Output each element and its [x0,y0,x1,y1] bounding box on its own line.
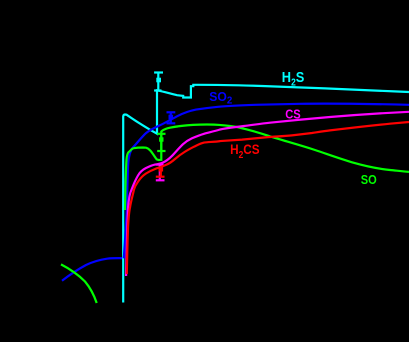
curve H2S cyan main [123,85,409,303]
curve SO2 blue main [124,104,409,259]
curve CS magenta main [126,112,409,276]
error bar CS magenta [156,165,165,181]
error bar SO green [157,134,165,151]
curve SO green early-time branch [61,264,97,303]
curve SO2 blue early-time branch [62,258,124,281]
curve SO green main [125,125,409,211]
svg-text:CS: CS [285,106,301,121]
curve H2CS red main [127,122,409,274]
error bar SO2 blue [167,112,176,123]
svg-text:SO: SO [361,172,377,187]
error bar H2CS red [156,167,165,177]
error bar H2S cyan [154,73,163,91]
